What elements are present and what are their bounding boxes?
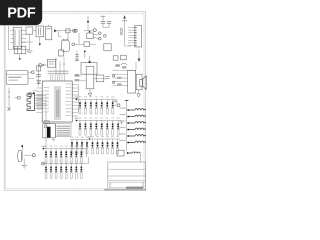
row C left LED-resistor 3: [81, 140, 83, 154]
box U6: [58, 48, 63, 56]
transistor Q1: [18, 145, 36, 169]
row E LED-resistor 3: [55, 164, 57, 179]
row D LED-resistor 8: [80, 149, 82, 164]
row D LED-resistor 1: [45, 149, 47, 164]
header connector J2: [120, 15, 141, 47]
cap C7: [75, 51, 79, 62]
jumper wire W5: [120, 133, 147, 137]
row A LED-resistor 3: [90, 99, 92, 114]
row C left LED-resistor 2: [76, 140, 78, 154]
crystal Y1 and output terminal: [46, 25, 78, 52]
row E terminal: [42, 162, 45, 165]
ground below buzzer: [52, 140, 55, 142]
row E LED-resistor 8: [80, 164, 82, 179]
ISP connector J4: [27, 90, 46, 148]
row B LED-resistor 2: [84, 120, 86, 135]
test point TP1: [7, 88, 20, 112]
row C right LED-resistor 2: [96, 139, 98, 154]
row B LED-resistor 8: [117, 120, 119, 135]
row D LED-resistor 6: [70, 149, 72, 164]
row E LED-resistor 1: [45, 164, 47, 179]
sensor SW and wire to title block: [117, 150, 140, 162]
row E LED-resistor 4: [60, 164, 62, 179]
jumper wire W3: [120, 120, 147, 124]
terminal TP2: [112, 101, 120, 107]
row B LED-resistor 3: [90, 120, 92, 135]
row C left bus wire: [70, 137, 89, 140]
relay K1 and driver: [75, 56, 110, 97]
input filter R1 C1 D1: [36, 64, 41, 87]
row D LED-resistor 5: [65, 149, 67, 164]
row C left LED-resistor 4: [86, 140, 88, 154]
row C right bus wire: [88, 136, 121, 140]
decoupling caps C5 C6: [84, 16, 111, 32]
row C right LED-resistor 5: [111, 139, 113, 154]
PDF badge: [0, 0, 42, 25]
jumper block J3: [87, 31, 106, 40]
jumper wire W1: [120, 107, 147, 111]
row B LED-resistor 4: [95, 120, 97, 135]
row A LED-resistor 4: [95, 99, 97, 114]
row A end stub: [115, 99, 117, 103]
feed wire: [84, 50, 86, 58]
sheet border frame: [4, 12, 145, 191]
row E LED-resistor 2: [50, 164, 52, 179]
row E LED-resistor 6: [70, 164, 72, 179]
row D bus wire: [42, 146, 87, 150]
row B LED-resistor 6: [106, 120, 108, 135]
row E bus wire: [42, 161, 89, 164]
optocoupler U2 with boxes: [9, 26, 37, 52]
jumper wire W6: [120, 140, 147, 144]
jumper wire W2: [120, 114, 147, 118]
buzzer LS1: [43, 121, 56, 138]
row C left LED-resistor 1: [71, 140, 73, 154]
row E LED-resistor 7: [75, 164, 77, 179]
switch S1 and box U5: [72, 29, 111, 51]
DC power jack J1: [6, 70, 34, 84]
jumper wire W4: [120, 127, 147, 131]
row C right LED-resistor 6: [116, 139, 118, 154]
row A LED-resistor 6: [106, 99, 108, 114]
row C right LED-resistor 1: [91, 139, 93, 154]
microcontroller U1: [36, 57, 78, 122]
row A LED-resistor 1: [79, 99, 81, 114]
row D LED-resistor 3: [55, 149, 57, 164]
designator text 5: [28, 91, 32, 100]
row C right LED-resistor 3: [101, 139, 103, 154]
svg-text:PDF: PDF: [7, 6, 36, 22]
row C right LED-resistor 4: [106, 139, 108, 154]
row B LED-resistor 7: [112, 120, 114, 135]
audio amp U3 U4 and speaker SP1: [112, 50, 146, 98]
resonator Y2: [36, 26, 44, 46]
row B end stub: [120, 120, 122, 125]
row D LED-resistor 4: [60, 149, 62, 164]
right bus wire: [125, 100, 129, 151]
title block: [104, 162, 146, 190]
row D LED-resistor 2: [50, 149, 52, 164]
reset button SW1: [39, 59, 56, 67]
row D to row E link wire: [87, 149, 89, 164]
row A LED-resistor 7: [112, 99, 114, 114]
fuse F1: [14, 46, 26, 60]
row A bus wire: [75, 96, 117, 100]
row D LED-resistor 7: [75, 149, 77, 164]
row B LED-resistor 1: [79, 120, 81, 135]
row A LED-resistor 2: [84, 99, 86, 114]
row B LED-resistor 5: [101, 120, 103, 135]
connector table J5: [56, 124, 71, 137]
row A LED-resistor 5: [101, 99, 103, 114]
row B bus wire: [75, 118, 122, 122]
row E LED-resistor 5: [65, 164, 67, 179]
